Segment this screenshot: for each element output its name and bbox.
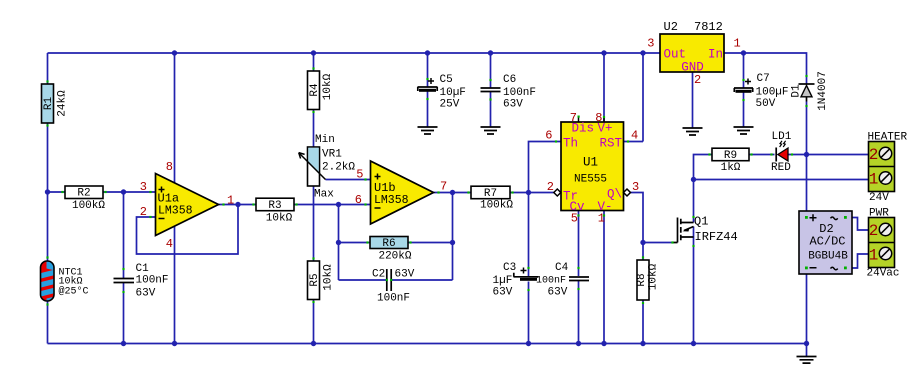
svg-text:1: 1: [869, 247, 879, 265]
svg-text:VR1: VR1: [322, 149, 342, 161]
svg-text:1: 1: [598, 212, 605, 226]
svg-text:2: 2: [869, 222, 879, 240]
svg-text:PWR: PWR: [869, 208, 889, 220]
svg-text:100nF: 100nF: [503, 87, 536, 99]
svg-text:In: In: [708, 48, 723, 62]
svg-text:50V: 50V: [756, 98, 776, 110]
svg-text:6: 6: [545, 129, 552, 143]
svg-text:C5: C5: [440, 74, 453, 86]
svg-text:63V: 63V: [503, 99, 523, 111]
svg-text:10kΩ: 10kΩ: [322, 73, 334, 100]
svg-text:4: 4: [166, 237, 173, 251]
svg-text:1N4007: 1N4007: [817, 71, 829, 111]
svg-text:2: 2: [694, 73, 701, 87]
svg-text:10kΩ: 10kΩ: [266, 213, 293, 225]
svg-text:C1: C1: [136, 263, 150, 275]
svg-text:RST: RST: [599, 137, 622, 151]
svg-text:63V: 63V: [548, 287, 568, 299]
svg-text:LM358: LM358: [158, 205, 193, 218]
svg-text:8: 8: [166, 160, 173, 174]
svg-text:R6: R6: [382, 238, 395, 250]
svg-text:C4: C4: [555, 262, 569, 274]
svg-text:NE555: NE555: [574, 174, 607, 186]
svg-text:3: 3: [140, 180, 147, 194]
svg-text:U1b: U1b: [374, 181, 396, 195]
svg-text:2: 2: [547, 180, 554, 194]
svg-text:@25°C: @25°C: [59, 286, 89, 298]
svg-text:100nF: 100nF: [377, 293, 410, 305]
svg-text:100kΩ: 100kΩ: [480, 200, 513, 212]
svg-text:LM358: LM358: [374, 194, 409, 207]
svg-text:Max: Max: [314, 189, 334, 201]
svg-text:220kΩ: 220kΩ: [378, 251, 411, 263]
svg-text:10kΩ: 10kΩ: [648, 263, 660, 290]
svg-text:1µF: 1µF: [493, 275, 513, 287]
svg-text:IRFZ44: IRFZ44: [695, 230, 738, 244]
svg-text:3: 3: [647, 37, 654, 51]
svg-text:C2: C2: [372, 269, 385, 281]
svg-text:10µF: 10µF: [440, 87, 466, 99]
svg-text:1: 1: [869, 171, 879, 189]
svg-text:1: 1: [734, 37, 741, 51]
svg-text:AC/DC: AC/DC: [809, 235, 845, 249]
svg-text:100µF: 100µF: [756, 87, 789, 99]
svg-text:100nF: 100nF: [136, 275, 169, 287]
svg-text:RED: RED: [771, 162, 791, 174]
svg-text:8: 8: [595, 111, 602, 125]
svg-text:D1: D1: [791, 84, 803, 98]
svg-text:7812: 7812: [694, 20, 723, 34]
svg-text:25V: 25V: [440, 99, 460, 111]
svg-text:Th: Th: [563, 137, 578, 151]
svg-text:R1: R1: [43, 97, 55, 111]
svg-text:1: 1: [227, 194, 234, 208]
svg-text:63V: 63V: [136, 288, 156, 300]
svg-text:R9: R9: [724, 150, 737, 162]
svg-text:BGBU4B: BGBU4B: [808, 251, 848, 263]
svg-text:4: 4: [631, 129, 638, 143]
svg-text:2.2kΩ: 2.2kΩ: [322, 162, 355, 174]
svg-text:R7: R7: [484, 188, 497, 200]
svg-text:100kΩ: 100kΩ: [72, 200, 105, 212]
svg-text:U2: U2: [664, 20, 678, 34]
svg-text:7: 7: [440, 180, 447, 194]
svg-text:C6: C6: [503, 74, 516, 86]
svg-text:R8: R8: [636, 273, 648, 286]
svg-text:7: 7: [570, 111, 577, 125]
svg-text:24Vac: 24Vac: [867, 268, 900, 280]
svg-text:U1a: U1a: [158, 192, 180, 206]
svg-text:63V: 63V: [395, 269, 415, 281]
svg-text:2: 2: [869, 146, 879, 164]
svg-text:LD1: LD1: [772, 131, 792, 143]
svg-text:5: 5: [356, 168, 363, 182]
svg-text:Min: Min: [315, 134, 335, 146]
svg-text:100nF: 100nF: [536, 276, 566, 287]
svg-text:1kΩ: 1kΩ: [721, 162, 741, 174]
svg-text:10kΩ: 10kΩ: [323, 264, 335, 291]
svg-text:24kΩ: 24kΩ: [57, 90, 69, 117]
svg-text:3: 3: [632, 180, 639, 194]
svg-text:6: 6: [355, 193, 362, 207]
svg-text:U1: U1: [583, 156, 598, 170]
svg-text:R2: R2: [77, 188, 90, 200]
svg-text:C3: C3: [503, 262, 516, 274]
svg-text:24V: 24V: [869, 192, 889, 204]
svg-text:C7: C7: [757, 73, 770, 85]
svg-text:2: 2: [140, 205, 147, 219]
svg-text:R4: R4: [309, 83, 321, 97]
svg-text:R3: R3: [268, 200, 281, 212]
svg-text:63V: 63V: [493, 287, 513, 299]
svg-text:Out: Out: [664, 48, 687, 62]
svg-text:5: 5: [571, 212, 578, 226]
svg-text:Q1: Q1: [694, 215, 708, 229]
svg-text:R5: R5: [309, 273, 321, 286]
svg-text:HEATER: HEATER: [868, 132, 908, 144]
